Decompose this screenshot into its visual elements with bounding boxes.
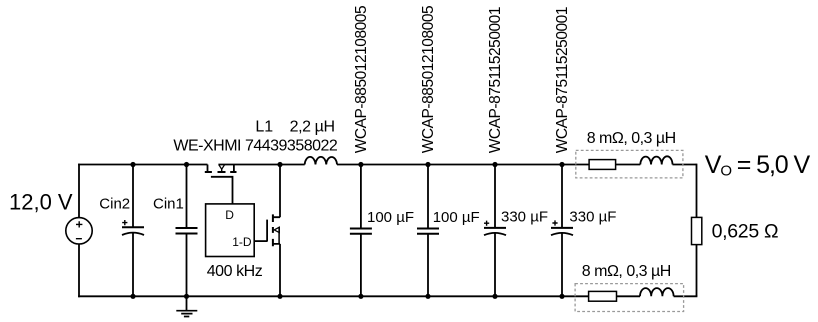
PWM block U1: [206, 204, 263, 280]
node: C3 top junction: [492, 162, 497, 167]
wire: top rail left (source to Q1 drain): [78, 164, 207, 166]
resistor R_load 0,625 Ω: [692, 217, 779, 244]
capacitor C4 330 µF: [551, 164, 616, 297]
wire: left vertical source leads: [78, 164, 80, 298]
svg-text:8 mΩ, 0,3 µH: 8 mΩ, 0,3 µH: [587, 130, 676, 147]
node: C4 top junction: [559, 162, 564, 167]
wire: top rail middle/right (Q1 source to output corner): [218, 164, 696, 166]
node: C4 bottom junction: [559, 294, 564, 299]
svg-text:100 µF: 100 µF: [433, 209, 480, 226]
parasitic block top (dashed): [576, 130, 683, 178]
transistor Q2 low-side MOSFET: [254, 164, 280, 297]
svg-text:2,2 µH: 2,2 µH: [290, 119, 335, 136]
capacitor C1 100 µF: [350, 164, 414, 297]
capacitor Cin1: [153, 164, 198, 297]
svg-text:100 µF: 100 µF: [367, 209, 414, 226]
svg-text:WCAP-885012108005: WCAP-885012108005: [353, 6, 370, 153]
svg-text:330 µF: 330 µF: [569, 209, 616, 226]
svg-text:WCAP-875115250001: WCAP-875115250001: [554, 7, 571, 153]
inductor L_par top: [640, 156, 672, 164]
svg-text:WE-XHMI 74439358022: WE-XHMI 74439358022: [173, 137, 338, 154]
svg-text:Cin2: Cin2: [99, 196, 130, 213]
svg-text:D: D: [225, 208, 234, 222]
capacitor C3 330 µF: [484, 164, 548, 297]
node: Cin1 top junction: [184, 162, 189, 167]
transistor Q1 high-side MOSFET: [205, 165, 237, 204]
node: C2 bottom junction: [425, 294, 430, 299]
node: C1 bottom junction: [358, 294, 363, 299]
voltage source V1 12,0 V: [9, 190, 92, 245]
ground: [176, 296, 197, 316]
node: Cin1/ground junction: [184, 294, 189, 299]
resistor R_par bottom: [589, 291, 617, 301]
node: C2 top junction: [425, 162, 430, 167]
node: Q2 source junction: [277, 294, 282, 299]
parasitic block bottom (dashed): [575, 263, 684, 312]
svg-text:L1: L1: [255, 119, 273, 136]
svg-text:Cin1: Cin1: [153, 196, 184, 213]
capacitor Cin2: [99, 164, 144, 297]
wire: bottom rail: [78, 295, 697, 297]
node: Cin2 top junction: [130, 162, 135, 167]
node: Cin2 bottom junction: [130, 294, 135, 299]
resistor R_par top: [589, 160, 616, 170]
svg-text:1-D: 1-D: [232, 235, 252, 249]
svg-text:WCAP-875115250001: WCAP-875115250001: [487, 7, 504, 153]
capacitor C2 100 µF: [417, 164, 480, 297]
svg-text:330 µF: 330 µF: [501, 209, 548, 226]
node: C3 bottom junction: [492, 294, 497, 299]
node: C1 top junction: [358, 162, 363, 167]
svg-text:8 mΩ, 0,3 µH: 8 mΩ, 0,3 µH: [582, 263, 671, 280]
node SW: switch node junction: [277, 162, 282, 167]
svg-text:12,0 V: 12,0 V: [9, 190, 73, 215]
svg-text:400 kHz: 400 kHz: [207, 263, 263, 280]
svg-text:WCAP-885012108005: WCAP-885012108005: [420, 6, 437, 153]
wire: right vertical output: [696, 164, 698, 297]
svg-text:0,625 Ω: 0,625 Ω: [712, 221, 779, 243]
inductor L_par bottom: [640, 288, 674, 296]
inductor L1: [305, 157, 337, 165]
